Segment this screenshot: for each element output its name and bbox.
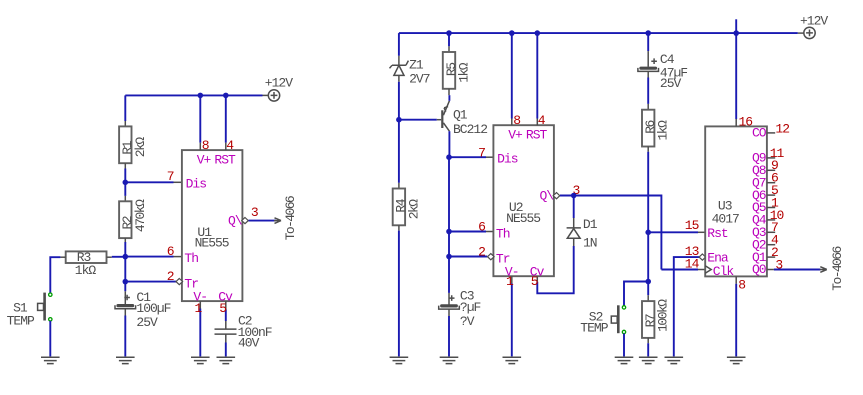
- transistor Q1 BC212: [441, 110, 443, 128]
- svg-text:?V: ?V: [460, 314, 475, 329]
- svg-text:To-4066: To-4066: [830, 246, 845, 290]
- svg-text:TEMP: TEMP: [580, 321, 608, 336]
- wire D1 bottom to Cv: [573, 238, 575, 246]
- wire pin 4 RST U2: [536, 33, 538, 118]
- svg-text:470kΩ: 470kΩ: [133, 199, 148, 232]
- svg-text:5: 5: [531, 274, 538, 289]
- svg-text:2kΩ: 2kΩ: [406, 199, 421, 220]
- svg-text:7: 7: [478, 145, 485, 160]
- resistor R4: [393, 189, 405, 226]
- wire pin 8 to ground: [735, 276, 737, 283]
- pin stub Q2 4: [767, 244, 775, 246]
- wire pin 4 RST: [225, 95, 227, 142]
- wire R2 to Th node: [124, 238, 126, 243]
- svg-text:Rst: Rst: [707, 226, 728, 241]
- wire D1 top: [573, 196, 575, 219]
- wire pin 8 V+: [199, 95, 201, 142]
- svg-text:8: 8: [202, 138, 209, 153]
- pin stub Q5 1: [767, 207, 775, 209]
- svg-text:1kΩ: 1kΩ: [457, 62, 472, 83]
- capacitor C2: [215, 329, 237, 334]
- svg-text:CO: CO: [752, 126, 767, 141]
- svg-text:2kΩ: 2kΩ: [133, 137, 148, 158]
- resistor R1: [119, 126, 131, 163]
- svg-text:14: 14: [685, 256, 700, 271]
- ground C1: [116, 357, 135, 363]
- node Rst junction: [645, 230, 651, 236]
- svg-text:8: 8: [738, 278, 745, 293]
- wire node to C1: [124, 282, 126, 292]
- pin stub Q4 10: [767, 219, 775, 221]
- pin stub Q7 6: [767, 182, 775, 184]
- wire Th pin 6: [125, 256, 173, 258]
- wire Rst pin 15: [648, 231, 698, 233]
- wire rail down to R1: [124, 95, 126, 121]
- wire left rail down to zener: [398, 33, 400, 56]
- svg-text:6: 6: [167, 244, 174, 259]
- wire Q1 collector down: [448, 131, 450, 157]
- wire C1 to ground: [124, 309, 126, 316]
- wire Tr pin 2: [125, 281, 176, 283]
- svg-text:?µF: ?µF: [460, 300, 481, 315]
- svg-text:+12V: +12V: [265, 75, 293, 90]
- ground S2: [615, 357, 634, 363]
- wire Clk pin 14: [661, 269, 698, 271]
- svg-text:16: 16: [739, 114, 753, 129]
- pin stub Q1 2: [767, 256, 775, 258]
- wire Q output pin 3 U2 to Clk corner: [560, 196, 661, 270]
- diode D1: [567, 228, 581, 238]
- node Th junction right: [446, 229, 452, 235]
- node base junction: [396, 117, 402, 123]
- node Dis junction: [123, 180, 129, 186]
- svg-text:100kΩ: 100kΩ: [656, 299, 671, 332]
- svg-text:5: 5: [219, 301, 226, 316]
- svg-text:1kΩ: 1kΩ: [75, 263, 97, 278]
- wire power stub: [263, 94, 269, 96]
- svg-text:2: 2: [478, 245, 485, 260]
- pin stub Q6 5: [767, 194, 775, 196]
- svg-text:1: 1: [506, 274, 514, 289]
- wire R5 top: [448, 33, 450, 46]
- pin stub Q8 9: [767, 169, 775, 171]
- wire pin 5 Cv to C2: [225, 301, 227, 309]
- wire S2 to ground: [623, 334, 625, 357]
- wire Th pin 6 U2: [449, 231, 486, 233]
- svg-text:1kΩ: 1kΩ: [656, 120, 671, 141]
- wire S1 to ground: [49, 321, 51, 357]
- svg-text:To-4066: To-4066: [283, 196, 298, 240]
- wire base node to R4: [398, 120, 400, 183]
- wire pin 16: [735, 33, 737, 119]
- wire C4 to R6: [647, 71, 649, 77]
- wire zener to base node: [398, 75, 400, 81]
- svg-text:25V: 25V: [136, 315, 158, 330]
- wire pin 1 V- U2 to ground: [511, 276, 513, 283]
- power +12V left: [268, 90, 279, 101]
- resistor R6: [642, 110, 654, 147]
- wire R3 left to switch: [60, 256, 65, 258]
- node D1 junction: [571, 193, 577, 199]
- ground U2: [503, 357, 522, 363]
- wire Dis pin 7: [125, 181, 173, 183]
- power +12V right: [804, 27, 815, 38]
- pin stub Q3 7: [767, 231, 775, 233]
- wire rail down to Tr: [448, 232, 450, 257]
- wire pin 1 V- to ground: [199, 301, 201, 308]
- pin stub Q9 11: [767, 157, 775, 159]
- node S2 junction: [645, 279, 651, 285]
- wire C2 to ground: [225, 334, 227, 342]
- svg-text:12: 12: [775, 121, 789, 136]
- op-amp U2 NE555: [488, 125, 560, 279]
- wire C3 to ground: [448, 309, 450, 316]
- op-amp U1 NE555: [176, 150, 248, 304]
- svg-text:U2: U2: [509, 200, 523, 215]
- resistor R5: [443, 52, 455, 89]
- svg-text:TEMP: TEMP: [7, 313, 35, 328]
- wire Q output pin 3: [249, 220, 277, 222]
- wire node to R7: [647, 282, 649, 296]
- resistor R3: [66, 251, 107, 263]
- wire node to S2: [624, 282, 648, 306]
- wire R4 to ground: [398, 225, 400, 230]
- capacitor C1: [115, 304, 136, 309]
- node Th junction: [123, 254, 129, 260]
- ground R7: [639, 357, 658, 363]
- svg-text:Q0: Q0: [752, 262, 766, 277]
- node Dis junction right: [446, 154, 452, 160]
- switch S1: [38, 293, 52, 321]
- svg-text:3: 3: [775, 257, 782, 272]
- ground S1: [41, 357, 60, 363]
- wire Tr pin 2 U2: [449, 256, 487, 258]
- ground C3: [440, 357, 459, 363]
- pin stub CO 12: [767, 132, 775, 134]
- svg-text:Z1: Z1: [409, 58, 424, 73]
- svg-text:1N: 1N: [583, 235, 597, 250]
- wire Dis pin 7 U2: [449, 156, 486, 158]
- wire node to Tr node: [124, 257, 126, 282]
- zener Z1: [390, 61, 409, 76]
- ground Ena: [665, 357, 684, 363]
- wire base: [399, 119, 437, 121]
- svg-text:1: 1: [195, 301, 203, 316]
- resistor R2: [119, 201, 131, 238]
- svg-text:6: 6: [478, 220, 485, 235]
- wire top rail left: [125, 94, 262, 96]
- wire rail down to Th: [448, 157, 450, 231]
- ground R4: [390, 357, 409, 363]
- wire R1 to Dis node: [124, 163, 126, 168]
- wire C4 top: [647, 33, 649, 51]
- wire pin 8 V+ U2: [511, 33, 513, 118]
- node Tr junction right: [446, 254, 452, 260]
- wire Ena pin 13 to ground rail: [674, 257, 699, 356]
- wire R6 to Rst node: [647, 147, 649, 152]
- ground U3: [727, 357, 746, 363]
- clock wedge pin 14: [705, 266, 711, 274]
- svg-text:7: 7: [167, 169, 174, 184]
- node Tr junction: [123, 279, 129, 285]
- svg-text:U1: U1: [197, 225, 212, 240]
- wire stub above junction: [735, 19, 737, 33]
- wire node to R2: [124, 182, 126, 196]
- svg-text:4: 4: [226, 138, 234, 153]
- svg-text:+12V: +12V: [800, 13, 828, 28]
- svg-text:BC212: BC212: [453, 122, 487, 137]
- switch S2: [611, 305, 625, 333]
- wire Q0 output pin 3: [767, 269, 774, 271]
- ground U1: [191, 357, 210, 363]
- wire rail to S2 node: [647, 232, 649, 281]
- svg-text:25V: 25V: [660, 76, 682, 91]
- svg-text:D1: D1: [583, 217, 598, 232]
- wire rail down to C3: [448, 257, 450, 293]
- capacitor C4: [638, 67, 659, 72]
- capacitor C3: [439, 304, 460, 309]
- wire R7 to ground: [647, 338, 649, 343]
- counter U3 4017: [705, 126, 767, 276]
- wire top rail right: [399, 32, 798, 34]
- svg-text:2: 2: [167, 269, 174, 284]
- ground C2: [217, 357, 236, 363]
- svg-text:15: 15: [685, 218, 699, 233]
- svg-text:8: 8: [513, 113, 520, 128]
- svg-text:4017: 4017: [712, 211, 739, 226]
- resistor R7: [642, 301, 654, 338]
- svg-text:3: 3: [251, 205, 258, 220]
- svg-text:Q1: Q1: [453, 107, 468, 122]
- svg-text:Clk: Clk: [713, 264, 735, 279]
- svg-text:2V7: 2V7: [409, 72, 430, 87]
- svg-text:4: 4: [538, 113, 546, 128]
- svg-text:40V: 40V: [238, 336, 260, 351]
- wire R5 to Q1 emitter: [448, 89, 450, 95]
- wire R3 right to Th node: [107, 256, 112, 258]
